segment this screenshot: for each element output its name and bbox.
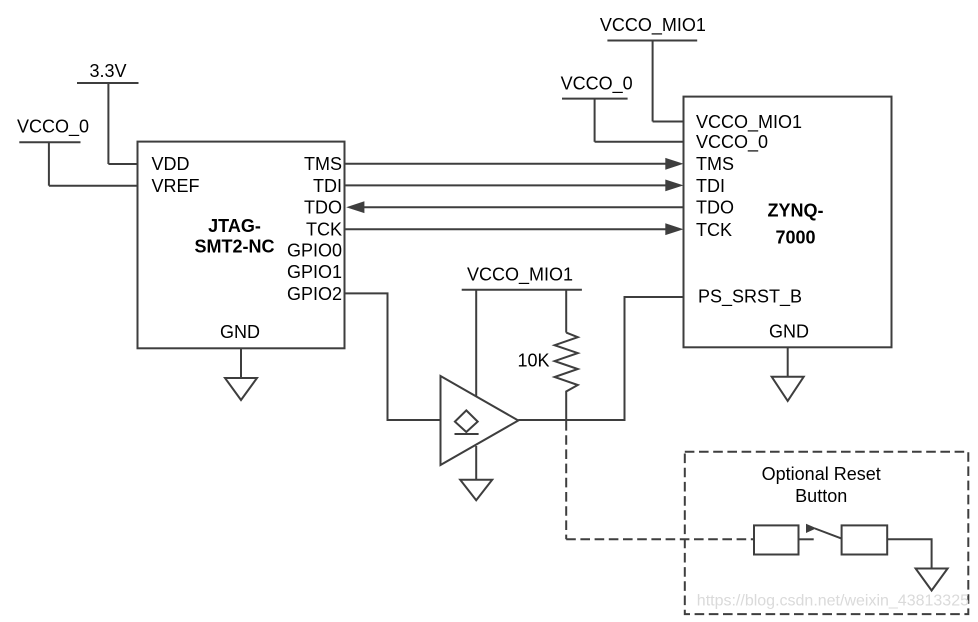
wire buffer output to PS_SRST_B bbox=[518, 297, 683, 420]
dashed box optional reset bbox=[685, 452, 969, 614]
svg-text:JTAG-: JTAG- bbox=[208, 216, 261, 236]
svg-text:TDO: TDO bbox=[696, 198, 734, 218]
svg-text:Optional Reset: Optional Reset bbox=[762, 464, 881, 484]
ground symbol buffer bbox=[460, 446, 492, 500]
svg-text:VCCO_MIO1: VCCO_MIO1 bbox=[467, 265, 573, 286]
svg-text:VDD: VDD bbox=[152, 154, 190, 174]
svg-text:GND: GND bbox=[769, 321, 809, 341]
svg-text:VCCO_0: VCCO_0 bbox=[17, 116, 89, 137]
svg-text:PS_SRST_B: PS_SRST_B bbox=[698, 287, 802, 308]
resistor R1 10K bbox=[555, 333, 578, 420]
power symbol 3.3V bbox=[77, 83, 139, 164]
arrowhead TDI bbox=[665, 180, 683, 192]
switch S1 contact block 1 bbox=[754, 525, 799, 554]
switch S1 actuator arrow bbox=[806, 524, 817, 533]
arrowhead TMS bbox=[665, 158, 683, 170]
svg-text:TMS: TMS bbox=[696, 154, 734, 174]
buffer U3 open-drain bbox=[441, 376, 519, 465]
wire VCCO_MIO1 pin net bbox=[653, 121, 684, 123]
switch S1 stub bbox=[799, 538, 814, 540]
wire dashed reset net bbox=[566, 421, 754, 539]
wire TDI bbox=[345, 184, 667, 186]
ZYNQ module U2 box bbox=[684, 97, 892, 348]
svg-text:VCCO_0: VCCO_0 bbox=[696, 132, 768, 153]
power symbol VCCO_MIO1 mid bbox=[462, 290, 582, 399]
ground symbol reset bbox=[916, 569, 948, 591]
svg-text:TDI: TDI bbox=[313, 176, 342, 196]
svg-text:TCK: TCK bbox=[696, 220, 732, 240]
svg-text:SMT2-NC: SMT2-NC bbox=[195, 236, 275, 256]
wire VCCO_0 pin net bbox=[595, 141, 684, 143]
svg-text:VCCO_0: VCCO_0 bbox=[561, 74, 633, 95]
power symbol VCCO_MIO1 top bbox=[607, 41, 697, 122]
switch S1 lever bbox=[815, 529, 842, 539]
svg-text:Button: Button bbox=[795, 486, 847, 506]
arrowhead TDO bbox=[346, 201, 364, 213]
svg-text:TDI: TDI bbox=[696, 176, 725, 196]
power symbol VCCO_0 right bbox=[562, 99, 628, 142]
svg-text:TDO: TDO bbox=[304, 198, 342, 218]
ground symbol ZYNQ GND bbox=[772, 347, 804, 401]
JTAG module U1 box bbox=[138, 142, 345, 349]
svg-text:GPIO1: GPIO1 bbox=[287, 262, 342, 282]
svg-text:GPIO2: GPIO2 bbox=[287, 284, 342, 304]
wire TCK bbox=[345, 228, 667, 230]
wire VDD net bbox=[108, 163, 137, 165]
arrowhead TCK bbox=[665, 223, 683, 235]
svg-text:TCK: TCK bbox=[306, 220, 342, 240]
svg-text:VCCO_MIO1: VCCO_MIO1 bbox=[696, 112, 802, 133]
wire switch to ground bbox=[887, 539, 931, 568]
svg-text:TMS: TMS bbox=[304, 154, 342, 174]
svg-text:VCCO_MIO1: VCCO_MIO1 bbox=[600, 15, 706, 36]
svg-text:VREF: VREF bbox=[152, 176, 200, 196]
svg-text:GND: GND bbox=[220, 322, 260, 342]
switch S1 contact block 2 bbox=[842, 525, 888, 554]
power symbol VCCO_0 left bbox=[19, 142, 80, 185]
wire TMS bbox=[345, 163, 667, 165]
wire VREF net bbox=[49, 185, 138, 187]
wire TDO bbox=[364, 206, 684, 208]
svg-text:https://blog.csdn.net/weixin_4: https://blog.csdn.net/weixin_43813325 bbox=[697, 593, 969, 610]
svg-text:3.3V: 3.3V bbox=[89, 61, 126, 81]
svg-text:ZYNQ-: ZYNQ- bbox=[768, 200, 824, 220]
svg-text:7000: 7000 bbox=[775, 227, 815, 247]
wire GPIO2 net bbox=[345, 293, 441, 420]
svg-text:10K: 10K bbox=[517, 351, 549, 371]
ground symbol JTAG GND bbox=[225, 348, 257, 400]
svg-text:GPIO0: GPIO0 bbox=[287, 241, 342, 261]
